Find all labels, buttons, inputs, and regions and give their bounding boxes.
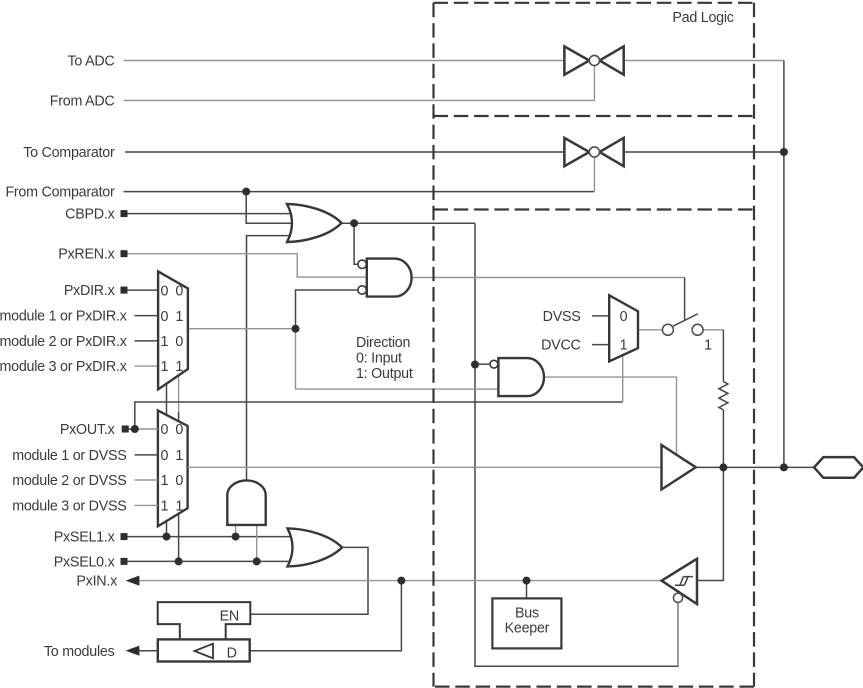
junction dot From Comparator branch xyxy=(242,188,250,196)
wire pad line down to schmitt input xyxy=(697,467,723,580)
svg-text:0: Input: 0: Input xyxy=(356,350,402,366)
arrow PxIN.x xyxy=(126,576,140,586)
svg-text:module 1 or PxDIR.x: module 1 or PxDIR.x xyxy=(0,309,127,325)
wire PxDIR.x stub xyxy=(127,289,158,291)
nand gate U4 (output buffer enable) body xyxy=(498,358,544,396)
wire direction node up to NAND1 bottom bubble xyxy=(296,290,358,329)
svg-text:0 1: 0 1 xyxy=(161,309,184,325)
svg-text:0 1: 0 1 xyxy=(161,448,184,464)
wire mux select vertical PxSEL1 xyxy=(166,383,168,536)
nand gate U3 (pullup enable) body xyxy=(367,259,412,297)
nand gate U3 top input bubble xyxy=(358,260,366,268)
wire NAND2 bubble stub xyxy=(475,363,490,365)
svg-text:To Comparator: To Comparator xyxy=(23,145,115,161)
svg-text:0 0: 0 0 xyxy=(161,422,184,438)
wire OR2 output to EN latch xyxy=(250,547,368,614)
wire D latch output to modules xyxy=(139,650,157,652)
or-gate OR1 (CBPD / comparator / sel) xyxy=(287,204,342,242)
svg-text:From ADC: From ADC xyxy=(50,93,115,109)
wire schmitt enable bubble vertical xyxy=(677,602,679,666)
transmission gate U2 (comparator) control circle xyxy=(589,147,599,157)
wire From Comparator xyxy=(124,191,595,193)
wire NAND1 output to resistor switch control xyxy=(412,277,685,279)
marker square PxREN.x xyxy=(121,250,128,257)
svg-text:1 1: 1 1 xyxy=(161,359,184,375)
wire PxOUT branch up and across to DVSS/DVCC mux select xyxy=(135,402,623,429)
switch S1 right contact circle xyxy=(692,324,703,335)
junction dot PxSEL0 AND leg xyxy=(253,557,261,565)
svg-text:module 3 or DVSS: module 3 or DVSS xyxy=(12,498,126,514)
and gate U5 (PxSEL1 and PxSEL0) body xyxy=(227,480,265,524)
svg-text:PxSEL1.x: PxSEL1.x xyxy=(54,530,115,546)
junction dot comparator rail xyxy=(780,148,788,156)
marker square PxOUT.x xyxy=(122,426,129,433)
wire OR1 output xyxy=(342,222,475,224)
latch D box xyxy=(158,639,250,661)
svg-text:1: Output: 1: Output xyxy=(356,366,413,382)
wire NAND2 output to output buffer enable xyxy=(544,377,677,455)
wire PxIN to D latch input xyxy=(250,581,402,651)
wire module 2 or PxDIR.x stub xyxy=(135,340,158,342)
svg-text:PxIN.x: PxIN.x xyxy=(76,574,117,590)
junction dot PxSEL1 AND leg xyxy=(232,533,240,541)
wire PxSEL0.x xyxy=(127,560,292,562)
svg-text:D: D xyxy=(227,645,237,661)
marker square PxSEL0.x xyxy=(121,558,128,565)
junction dot PxIN bus keeper xyxy=(523,577,531,585)
svg-text:Bus: Bus xyxy=(515,606,539,622)
svg-text:PxOUT.x: PxOUT.x xyxy=(60,422,115,438)
nand gate U4 input bubble xyxy=(490,360,498,368)
svg-text:1 1: 1 1 xyxy=(161,498,184,514)
wire module 2 or DVSS stub xyxy=(135,479,158,481)
switch S1 lever xyxy=(673,314,698,326)
svg-text:From Comparator: From Comparator xyxy=(5,185,115,201)
junction dot PxSEL1 select line xyxy=(163,533,171,541)
arrow To modules xyxy=(126,646,140,656)
wire comparator gate control xyxy=(593,157,595,192)
wire mux M2 output to output buffer xyxy=(188,466,662,468)
transmission gate U1 (ADC) control circle xyxy=(589,55,599,65)
wire switch control vertical xyxy=(684,278,686,320)
svg-text:To modules: To modules xyxy=(44,644,115,660)
wire mux M1 output (direction node) xyxy=(188,328,296,330)
svg-text:1: 1 xyxy=(620,338,628,354)
svg-text:module 2 or DVSS: module 2 or DVSS xyxy=(12,473,126,489)
wire bus keeper stub xyxy=(526,581,528,599)
svg-text:DVSS: DVSS xyxy=(543,309,581,325)
svg-text:To ADC: To ADC xyxy=(68,54,115,70)
svg-text:Pad Logic: Pad Logic xyxy=(672,10,733,26)
dashed box pad logic right edge xyxy=(753,3,755,687)
transmission gate U2 (comparator) right triangle xyxy=(600,138,624,166)
wire direction node down to NAND2 input xyxy=(296,329,498,389)
mux M2 (PxOUT mux) body xyxy=(158,410,188,526)
marker square PxSEL1.x xyxy=(121,533,128,540)
wire module 1 or PxDIR.x stub xyxy=(135,315,158,317)
svg-text:PxSEL0.x: PxSEL0.x xyxy=(54,554,115,570)
svg-text:PxDIR.x: PxDIR.x xyxy=(64,283,115,299)
wire OR1 output to NAND1 top bubble xyxy=(354,223,358,264)
svg-text:0 0: 0 0 xyxy=(161,284,184,300)
transmission gate U1 (ADC) right triangle xyxy=(600,46,624,74)
wire switch to resistor horizontal xyxy=(703,329,723,331)
junction dot PxOUT xyxy=(131,425,139,433)
svg-text:DVCC: DVCC xyxy=(541,338,581,354)
junction dot OR1 output xyxy=(350,219,358,227)
transmission gate U1 (ADC) left triangle xyxy=(564,46,589,74)
svg-text:1 0: 1 0 xyxy=(161,473,184,489)
svg-text:0: 0 xyxy=(620,309,628,325)
svg-text:1: 1 xyxy=(704,337,712,353)
svg-text:Direction: Direction xyxy=(356,335,410,351)
junction dot PxIN D latch xyxy=(397,577,405,585)
or-gate OR2 (PxSEL1 or PxSEL0) xyxy=(288,528,343,566)
dashed box divider comparator section xyxy=(434,208,755,210)
svg-text:1 0: 1 0 xyxy=(161,334,184,350)
junction dot pad line rail xyxy=(780,463,788,471)
wire PxSEL AND right leg xyxy=(256,525,258,562)
dashed box pad logic bottom edge xyxy=(435,685,754,687)
wire comparator gate output to right rail xyxy=(624,151,784,153)
wire pad line (buffer output to pad) xyxy=(696,466,814,468)
wire PxIN.x (schmitt output) xyxy=(139,580,661,582)
svg-text:CBPD.x: CBPD.x xyxy=(65,207,114,223)
wire PxOUT.x to mux M2 xyxy=(125,428,135,430)
wire ADC gate output to right rail xyxy=(624,60,784,62)
junction dot pad line resistor xyxy=(719,463,727,471)
wire DVSS/DVCC mux select vertical xyxy=(622,355,624,402)
svg-text:module 1 or DVSS: module 1 or DVSS xyxy=(12,448,126,464)
wire PxSEL AND left leg xyxy=(235,525,237,537)
resistor R1 xyxy=(719,382,728,410)
wire module 3 or DVSS stub xyxy=(135,504,158,506)
bus keeper box xyxy=(492,598,561,648)
schmitt trigger U7 hysteresis symbol xyxy=(675,577,693,586)
wire To Comparator xyxy=(125,151,564,153)
wire right rail (pad to ADC/comparator gates) xyxy=(783,61,785,468)
wire module 1 or DVSS stub xyxy=(135,454,158,456)
wire PxSEL1.x xyxy=(127,536,294,538)
wire module 3 or PxDIR.x stub xyxy=(135,365,158,367)
switch S1 left contact circle xyxy=(662,324,673,335)
svg-text:module 2 or PxDIR.x: module 2 or PxDIR.x xyxy=(0,334,127,350)
dashed box pad logic top edge xyxy=(434,2,755,4)
wire PxREN.x to NAND1 middle input xyxy=(127,254,367,277)
svg-text:PxREN.x: PxREN.x xyxy=(58,247,114,263)
mux M3 (DVSS/DVCC mux) body xyxy=(609,295,638,361)
wire PxSEL AND output to OR1 bottom input xyxy=(247,236,294,481)
nand gate U3 bottom input bubble xyxy=(358,286,366,294)
latch D clock triangle xyxy=(195,644,214,659)
wire resistor to pad line xyxy=(722,410,724,468)
dashed box pad logic left edge xyxy=(432,3,434,687)
wire OR1 output vertical to NAND2 and schmitt enable xyxy=(475,223,678,666)
latch EN box xyxy=(158,602,251,639)
junction dot direction node xyxy=(292,325,300,333)
wire switch corner down to resistor xyxy=(722,330,724,382)
output buffer U6 triangle xyxy=(662,445,696,490)
wire To ADC xyxy=(124,60,565,62)
dashed box divider ADC section xyxy=(434,115,755,117)
wire PxOUT dot to mux M2 xyxy=(135,428,158,430)
transmission gate U2 (comparator) left triangle xyxy=(564,138,589,166)
wire mux select vertical PxSEL0 lower xyxy=(178,412,180,561)
junction dot PxSEL0 select line xyxy=(175,557,183,565)
svg-text:EN: EN xyxy=(220,608,239,624)
wire mux M3 output to switch xyxy=(638,329,662,331)
svg-text:module 3 or PxDIR.x: module 3 or PxDIR.x xyxy=(0,359,127,375)
wire DVSS stub xyxy=(592,315,609,317)
wire mux select vertical PxSEL0 upper xyxy=(178,375,180,412)
marker square PxDIR.x xyxy=(121,287,128,294)
junction dot NAND2 bubble input xyxy=(471,361,479,369)
svg-text:Keeper: Keeper xyxy=(505,621,550,637)
marker square CBPD.x xyxy=(121,210,128,217)
wire DVCC stub xyxy=(592,344,609,346)
wire From ADC xyxy=(124,66,595,101)
schmitt trigger U7 triangle xyxy=(662,559,697,604)
schmitt trigger U7 enable bubble xyxy=(673,593,682,602)
wire From Comparator branch to OR1 middle input xyxy=(246,192,294,224)
pad hexagon xyxy=(814,457,863,478)
mux M1 (PxDIR mux) body xyxy=(158,271,188,389)
wire CBPD.x to OR1 input xyxy=(127,213,294,215)
